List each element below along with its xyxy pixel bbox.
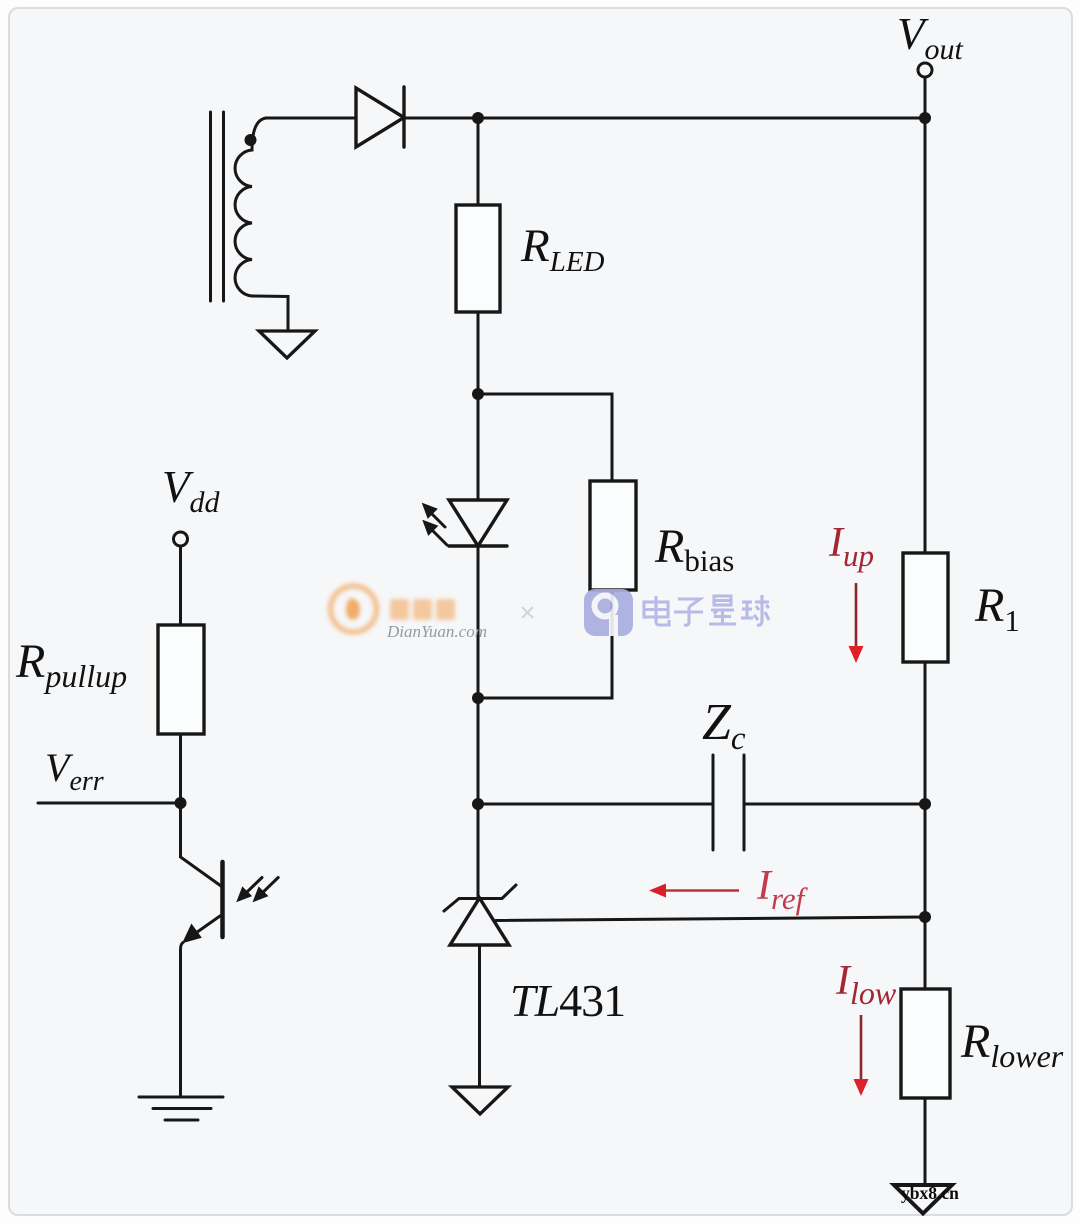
- watermark dzxq icon: [584, 589, 633, 636]
- ground (transformer): [259, 331, 315, 358]
- wire Vout terminal to rail: [924, 77, 927, 118]
- wire node to capacitor Zc: [478, 803, 713, 806]
- wire node to Rbias top: [478, 394, 612, 481]
- node Zc left: [472, 798, 484, 810]
- 电: [644, 596, 669, 625]
- svg-text:TL431: TL431: [510, 975, 625, 1026]
- transformer T1 secondary winding: [235, 118, 288, 331]
- node LED/Rbias bottom: [472, 692, 484, 704]
- current arrow Iref: [649, 884, 739, 898]
- node at Vout rail: [919, 112, 931, 124]
- wire top node down to RLED: [477, 118, 480, 205]
- node Zc right: [919, 798, 931, 810]
- wire Rlower to ground: [924, 1098, 927, 1185]
- wire Zc node down to TL431: [477, 804, 480, 898]
- ground (TL431): [452, 1087, 508, 1114]
- wire down to Zc node: [477, 698, 480, 804]
- watermark DianYuan logo: [331, 586, 377, 632]
- 子: [674, 599, 703, 625]
- diode D1: [356, 87, 404, 147]
- wire Vdd to Rpullup: [179, 546, 182, 625]
- svg-text:ybx8.cn: ybx8.cn: [901, 1183, 959, 1203]
- resistor RLED: [456, 205, 500, 312]
- phototransistor Q1 base bar: [220, 862, 225, 937]
- terminal Vout: [918, 63, 932, 77]
- watermark blurred orange chars: [390, 599, 455, 620]
- phototransistor light arrows: [238, 878, 279, 902]
- 星: [709, 596, 736, 624]
- transformer T1 core: [211, 112, 224, 301]
- node LED/Rbias top: [472, 388, 484, 400]
- node Verr: [175, 797, 187, 809]
- TL431 shunt regulator: [444, 885, 516, 945]
- wire Rbias bottom to node: [478, 590, 612, 698]
- watermark dzxq text (vector CJK): [644, 595, 769, 625]
- wire TL431 ref to right rail: [496, 917, 925, 921]
- wire ref node to Rlower: [924, 917, 927, 989]
- ground (emitter, 3-bar): [139, 1097, 223, 1120]
- transformer phase dot: [245, 134, 257, 146]
- right rail wire Vout to R1: [924, 118, 927, 553]
- wire Verr: [38, 802, 181, 805]
- phototransistor Q1 collector: [181, 803, 222, 886]
- wire node down to LED: [477, 394, 480, 500]
- current arrow Ilow: [854, 1015, 869, 1096]
- node at RLED branch: [472, 112, 484, 124]
- LED of optocoupler: [449, 500, 507, 546]
- terminal Vdd: [174, 532, 188, 546]
- wire TL431 anode down: [478, 945, 481, 1087]
- wire Rpullup to Verr node: [179, 734, 182, 803]
- current arrow Iup: [849, 583, 864, 663]
- resistor Rpullup: [158, 625, 204, 734]
- capacitor Zc: [713, 755, 744, 850]
- phototransistor Q1 emitter: [183, 916, 220, 943]
- 球: [741, 595, 769, 625]
- svg-text:DianYuan.com: DianYuan.com: [386, 622, 487, 641]
- node ref right rail: [919, 911, 931, 923]
- resistor Rlower: [901, 989, 950, 1098]
- LED light arrows: [423, 504, 447, 545]
- wire emitter down: [181, 943, 184, 1098]
- watermark x separator: [522, 607, 533, 618]
- wire RLED to LED node: [477, 312, 480, 394]
- wire R1 to Zc node: [924, 662, 927, 804]
- wire LED to bottom node: [477, 546, 480, 698]
- resistor Rbias: [590, 481, 636, 590]
- wire diode to Vout rail: [404, 117, 925, 120]
- resistor R1: [903, 553, 948, 662]
- wire top from transformer to diode: [266, 117, 356, 120]
- wire Zc node to ref node: [924, 804, 927, 917]
- ground (Rlower): [894, 1185, 952, 1214]
- wire capacitor to right rail: [744, 803, 925, 806]
